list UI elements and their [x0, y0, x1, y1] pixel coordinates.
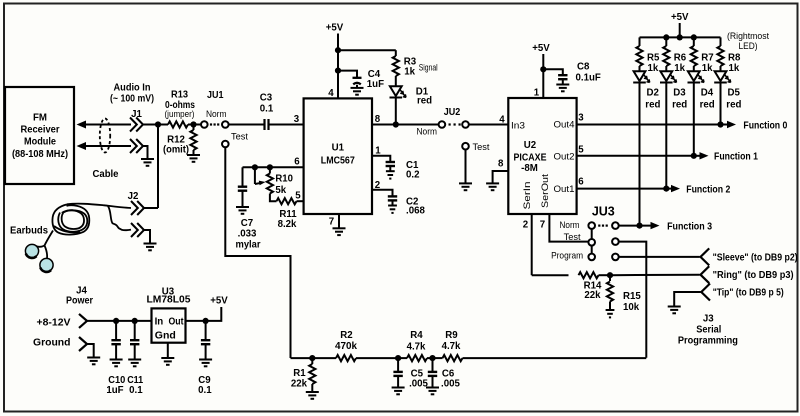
jack Tip contact: [701, 284, 710, 301]
microcontroller U2 PICAXE box: [508, 98, 576, 214]
wire C3 to U1 pin3: [270, 124, 304, 126]
node R13/R12 junction: [190, 121, 196, 127]
svg-text:.068: .068: [406, 205, 425, 216]
svg-text:8.2k: 8.2k: [278, 219, 297, 230]
svg-text:Norm: Norm: [560, 220, 580, 230]
svg-text:1uF: 1uF: [367, 79, 384, 90]
node Function 0 / D5: [717, 121, 723, 127]
svg-text:Function 2: Function 2: [686, 184, 730, 195]
node C10 junction: [113, 318, 119, 324]
svg-text:6: 6: [294, 157, 300, 168]
capacitor C6: [432, 358, 434, 371]
resistor R2: [312, 357, 336, 359]
wire JU3 Norm-Test strip: [591, 229, 593, 239]
earbud cord to J2 tip: [67, 204, 131, 208]
ground C5: [392, 388, 405, 395]
arrow Function 1: [700, 152, 709, 159]
wire J2 ring to ground: [144, 230, 150, 243]
svg-text:Ground: Ground: [33, 338, 71, 349]
node bus/R6: [663, 34, 669, 40]
ground U2 pin8: [486, 183, 499, 190]
svg-text:SerIn: SerIn: [522, 182, 533, 210]
svg-text:LMC567: LMC567: [321, 156, 355, 167]
node bus/+5V: [677, 34, 683, 40]
ground Tip: [668, 307, 681, 314]
wire Out2 Function 1: [577, 155, 694, 157]
svg-text:U2: U2: [524, 140, 536, 151]
svg-text:C7: C7: [241, 218, 253, 229]
capacitor C5: [397, 358, 399, 371]
wire +5V to R3: [338, 49, 396, 51]
wire JU2 to U2 In3: [469, 124, 509, 126]
capacitor C3: [265, 119, 269, 130]
svg-text:-8M: -8M: [521, 163, 538, 174]
jumper JU3 pin Program: [588, 254, 595, 261]
svg-text:(Rightmost: (Rightmost: [727, 31, 770, 41]
wire U3 gnd pin: [167, 343, 169, 358]
svg-text:R15: R15: [623, 291, 641, 302]
resistor R5: [639, 37, 641, 46]
ground JU2 Test: [459, 183, 472, 190]
wire D2 to function line: [639, 83, 641, 226]
svg-text:C3: C3: [260, 92, 273, 103]
ground J4: [87, 358, 100, 365]
ground U1 pin7: [333, 228, 346, 235]
svg-text:R4: R4: [410, 330, 423, 341]
svg-text:Out2: Out2: [554, 151, 575, 162]
wire D4 to function line: [693, 83, 695, 156]
wire C8 branch: [543, 69, 563, 74]
earbud cord tangle loop 2: [58, 210, 87, 232]
svg-text:LED): LED): [739, 41, 758, 51]
capacitor C4: [353, 78, 362, 85]
wire J4 to U3 In: [87, 320, 152, 322]
ground C1: [386, 171, 395, 178]
resistor R13: [158, 124, 168, 126]
wire LED supply bus: [640, 36, 721, 38]
svg-text:In: In: [155, 317, 164, 328]
capacitor C10: [115, 321, 117, 340]
led D1: [390, 86, 407, 97]
svg-text:.033: .033: [238, 229, 257, 240]
svg-text:Out4: Out4: [554, 120, 575, 131]
earbud cord branch to right bud: [45, 246, 48, 259]
svg-text:1k: 1k: [702, 63, 713, 74]
jumper JU3 pin Norm-right: [612, 222, 619, 229]
jumper JU3 pin Norm: [588, 222, 595, 229]
svg-text:0.1uF: 0.1uF: [576, 73, 601, 84]
wire U2 pin8 to ground: [493, 171, 509, 183]
jumper JU3 right pin upper: [612, 238, 619, 245]
svg-text:1uF: 1uF: [106, 385, 123, 396]
svg-text:Out1: Out1: [554, 184, 575, 195]
svg-text:+5V: +5V: [326, 23, 344, 34]
jumper JU3 pin Test: [588, 239, 595, 246]
svg-text:0.1: 0.1: [260, 103, 274, 114]
svg-text:8: 8: [498, 159, 504, 170]
op-amp U1 LMC567 box: [304, 98, 372, 214]
wire SerOut to JU3 Test: [549, 214, 588, 242]
ground R12: [187, 155, 200, 162]
svg-text:4.7k: 4.7k: [442, 341, 461, 352]
wire Out1 Function 2: [577, 188, 667, 190]
svg-text:Function 1: Function 1: [714, 152, 759, 163]
ground C8: [556, 85, 569, 92]
resistor R3: [395, 50, 397, 56]
svg-text:Out: Out: [169, 317, 185, 328]
arrow Function 0: [727, 121, 736, 128]
svg-text:"Tip" (to DB9 p 5): "Tip" (to DB9 p 5): [713, 288, 784, 299]
wire pin6 bus: [243, 166, 304, 168]
svg-text:7: 7: [329, 217, 334, 228]
wire C2 to ground: [392, 201, 394, 205]
svg-text:D5: D5: [728, 88, 741, 99]
svg-text:JU3: JU3: [592, 205, 615, 219]
svg-text:6: 6: [578, 177, 584, 188]
svg-text:Module: Module: [24, 137, 57, 148]
wire +5V rail U1: [337, 34, 339, 99]
svg-text:red: red: [645, 99, 660, 110]
svg-text:Test: Test: [473, 142, 491, 152]
svg-text:JU2: JU2: [444, 107, 461, 118]
svg-text:Audio In: Audio In: [114, 83, 151, 94]
earbud cord to J2 ring: [108, 206, 131, 230]
wire Out4 Function 0: [577, 124, 728, 126]
node pin8/D1 junction: [393, 121, 399, 127]
svg-text:Program: Program: [551, 251, 583, 261]
wire SerIn down: [531, 214, 533, 275]
jumper JU1 pin Test: [222, 141, 229, 148]
ground C6: [426, 388, 439, 395]
FM receiver module box: [5, 87, 74, 184]
jack J4 power contact: [79, 314, 87, 328]
jack J2 ring contact: [131, 223, 144, 237]
svg-text:470k: 470k: [335, 341, 358, 352]
wire JU1 to C3: [229, 124, 264, 126]
jumper JU3 right pin lower: [612, 254, 619, 261]
svg-text:4.7k: 4.7k: [407, 342, 426, 353]
svg-text:R9: R9: [445, 330, 458, 341]
wire U3 Out to +5V: [186, 307, 222, 321]
earbud cord branch to left bud: [36, 246, 45, 247]
svg-text:R13: R13: [171, 90, 189, 101]
svg-text:PICAXE: PICAXE: [514, 153, 547, 164]
ground C4: [351, 88, 364, 95]
wire Tip to ground: [674, 292, 700, 306]
svg-text:Test: Test: [564, 232, 582, 242]
svg-text:Earbuds: Earbuds: [10, 226, 48, 237]
wire network to JU3 right: [463, 357, 647, 359]
led D5: [714, 71, 731, 82]
wire pin1 to C1: [372, 156, 390, 162]
earbud cord tangle loop 3: [62, 210, 84, 229]
resistor R9: [433, 357, 443, 359]
ground C7: [236, 207, 249, 214]
jumper JU1 pin Norm-left: [201, 121, 208, 128]
svg-text:JU1: JU1: [207, 90, 224, 101]
capacitor C9: [205, 321, 207, 340]
svg-text:(jumper): (jumper): [165, 109, 195, 119]
node C6 junction: [429, 355, 435, 361]
wire D1 to pin8 node: [395, 98, 397, 125]
node +5V/C8 branch: [540, 66, 546, 72]
capacitor C11: [134, 321, 136, 340]
jumper JU2 pin Norm-left: [439, 121, 446, 128]
svg-text:5: 5: [578, 145, 584, 156]
wire U1 pin7 to ground: [338, 214, 340, 228]
svg-text:Function 3: Function 3: [667, 221, 713, 232]
wire +5V to U2 pin1: [542, 54, 544, 98]
svg-text:1k: 1k: [648, 63, 659, 74]
svg-text:red: red: [417, 96, 432, 107]
svg-text:red: red: [700, 99, 715, 110]
svg-text:(~ 100 mV): (~ 100 mV): [110, 94, 154, 105]
svg-text:"Ring" (to DB9 p3): "Ring" (to DB9 p3): [713, 270, 794, 281]
svg-text:In3: In3: [511, 120, 525, 131]
wire D3 to function line: [665, 83, 667, 189]
led D2: [633, 71, 650, 82]
svg-text:D2: D2: [647, 88, 659, 99]
wire +5V stub LEDs: [679, 23, 681, 37]
potentiometer R10: [269, 167, 271, 173]
node Function 3 / D2: [636, 223, 642, 229]
wire JU3 right upper to network: [619, 242, 647, 358]
wire pin2 to C2: [372, 190, 393, 196]
svg-text:Receiver: Receiver: [21, 125, 60, 136]
ground C2: [388, 206, 397, 213]
node C11 junction: [132, 318, 138, 324]
svg-text:0.2: 0.2: [406, 170, 419, 181]
wire J4 ground: [87, 344, 94, 357]
svg-text:5: 5: [295, 191, 301, 202]
wire JU3 Test-Program strip: [591, 246, 593, 254]
svg-text:D4: D4: [701, 88, 714, 99]
ground J2 ring: [144, 244, 157, 251]
resistor R15: [609, 275, 611, 281]
jack Ring contact: [701, 266, 710, 283]
led D3: [660, 71, 677, 82]
svg-text:R2: R2: [340, 330, 352, 341]
wire JU1 Test to bottom network: [225, 147, 290, 358]
resistor R14: [532, 274, 569, 276]
wire J1 ring with arrow into module: [77, 142, 87, 150]
earbud cord down strand: [45, 231, 54, 246]
svg-text:R1: R1: [293, 368, 306, 379]
R10 wiper arrow: [254, 167, 256, 184]
wire Ring line: [610, 274, 700, 277]
wire JU3 Norm to Function 3: [619, 225, 651, 227]
svg-text:1k: 1k: [674, 63, 685, 74]
wire J1 ring to ground: [143, 146, 148, 159]
jumper JU1 pin Norm-right: [222, 121, 229, 128]
node C9 junction: [203, 318, 209, 324]
cable shield ellipse: [100, 119, 110, 153]
wire C4 to ground: [356, 85, 358, 88]
svg-text:U1: U1: [332, 143, 345, 154]
svg-text:+5V: +5V: [532, 43, 550, 54]
node +5V/C4 branch: [335, 68, 341, 74]
svg-text:SerOut: SerOut: [540, 174, 551, 208]
regulator U3 LM78L05 box: [152, 308, 186, 342]
svg-text:4: 4: [499, 115, 505, 126]
ground C9: [199, 360, 212, 367]
svg-text:.005: .005: [441, 378, 460, 389]
node Function 2 / D3: [663, 186, 669, 192]
node bus/R7: [691, 34, 697, 40]
svg-text:mylar: mylar: [236, 240, 261, 251]
resistor R7: [693, 37, 695, 46]
jumper JU2 dots: [449, 123, 461, 125]
node +5V/R3 branch: [335, 47, 341, 53]
svg-text:Serial: Serial: [696, 325, 721, 336]
wire C4 branch: [338, 71, 357, 78]
jumper JU2 pin Norm-right: [462, 121, 469, 128]
svg-text:5k: 5k: [275, 185, 286, 196]
svg-text:Cable: Cable: [93, 169, 120, 180]
node A junction J1/R13/J2: [155, 121, 161, 127]
capacitor C2: [388, 196, 397, 200]
capacitor C1: [386, 162, 395, 166]
jack Sleeve contact: [701, 248, 710, 265]
svg-text:FM: FM: [33, 113, 47, 124]
svg-text:R10: R10: [275, 174, 293, 185]
svg-text:Norm: Norm: [206, 109, 227, 119]
svg-text:+5V: +5V: [671, 12, 689, 23]
svg-text:Power: Power: [66, 296, 93, 307]
svg-text:10k: 10k: [623, 302, 640, 313]
svg-text:J3: J3: [703, 314, 714, 325]
wire C8 to ground: [562, 80, 564, 85]
arrow Function 3: [651, 222, 660, 229]
svg-text:Gnd: Gnd: [155, 331, 176, 342]
jack J2 tip contact: [131, 201, 144, 215]
capacitor C7: [242, 167, 244, 186]
jumper JU2 pin Test: [462, 143, 469, 150]
node C5 junction: [395, 355, 401, 361]
svg-text:D3: D3: [673, 88, 686, 99]
earbud cord tangle loop 1: [52, 204, 89, 234]
led D4: [688, 71, 705, 82]
svg-text:8: 8: [375, 114, 381, 125]
svg-text:red: red: [672, 99, 687, 110]
earbud cord tangle cross strand: [54, 226, 80, 233]
svg-text:(88-108 MHz): (88-108 MHz): [12, 149, 68, 160]
node R14/R15 junction: [607, 272, 613, 278]
svg-text:7: 7: [540, 220, 545, 231]
node pin6/wiper junction: [252, 164, 258, 170]
resistor R4: [398, 357, 407, 359]
resistor R12: [193, 125, 195, 131]
node R1 junction: [309, 355, 315, 361]
wire C1 to ground: [389, 166, 391, 170]
svg-text:.005: .005: [409, 378, 428, 389]
jumper JU1 dots: [210, 123, 219, 125]
svg-text:0.1: 0.1: [129, 385, 143, 396]
ground J1 ring: [141, 159, 154, 166]
svg-text:22k: 22k: [291, 379, 308, 390]
wire test line to R1 node: [291, 357, 313, 359]
svg-text:0.1: 0.1: [198, 385, 212, 396]
wire J2 tip to vertical: [144, 207, 158, 209]
node Function 1 / D4: [691, 153, 697, 159]
svg-text:1k: 1k: [729, 63, 740, 74]
svg-text:1k: 1k: [404, 67, 415, 78]
svg-text:4: 4: [328, 88, 334, 99]
resistor R8: [720, 37, 722, 46]
earbud right: [40, 258, 53, 271]
resistor R6: [665, 37, 667, 46]
ground R15: [606, 310, 615, 317]
resistor R11: [270, 194, 277, 202]
wire JU3 right lower to Sleeve: [619, 256, 700, 258]
jack J4 ground contact: [79, 337, 87, 351]
node pin6/R10 junction: [267, 164, 273, 170]
svg-text:+8-12V: +8-12V: [37, 317, 72, 328]
jack J1 ring contact: [130, 139, 143, 153]
capacitor C8: [558, 75, 567, 79]
svg-text:Function 0: Function 0: [743, 120, 787, 131]
svg-text:22k: 22k: [584, 290, 601, 301]
ground U3: [161, 358, 174, 365]
earbud left: [25, 244, 38, 257]
ground R1: [306, 392, 319, 399]
svg-text:"Sleeve" (to DB9 p2): "Sleeve" (to DB9 p2): [713, 252, 798, 263]
svg-text:Test: Test: [231, 132, 249, 142]
svg-text:3: 3: [578, 113, 584, 124]
svg-text:(omit): (omit): [163, 145, 189, 156]
jack J1 tip contact: [130, 118, 143, 132]
svg-text:1: 1: [534, 88, 540, 99]
svg-text:Norm: Norm: [417, 127, 438, 137]
wire JU2 Test to ground: [465, 150, 467, 183]
ground C11: [128, 360, 141, 367]
svg-text:Signal: Signal: [419, 63, 438, 73]
ground C10: [110, 360, 123, 367]
wire node A down to J2: [157, 125, 159, 209]
wire J1 tip to node A: [143, 124, 158, 126]
svg-text:LM78L05: LM78L05: [147, 295, 192, 306]
svg-text:2: 2: [523, 220, 528, 231]
svg-text:Programming: Programming: [678, 336, 738, 347]
svg-text:J2: J2: [128, 191, 139, 202]
svg-text:+5V: +5V: [210, 296, 228, 307]
svg-text:3: 3: [294, 114, 300, 125]
jumper JU3 dots: [598, 225, 608, 227]
svg-text:C8: C8: [577, 62, 590, 73]
wire U1 pin8 to JU2: [372, 124, 439, 126]
arrow Function 2: [666, 188, 671, 190]
wire D5 to function line: [720, 83, 722, 125]
wire J1 top with arrow into module: [77, 121, 87, 129]
svg-text:red: red: [726, 99, 741, 110]
resistor R1: [311, 358, 313, 364]
